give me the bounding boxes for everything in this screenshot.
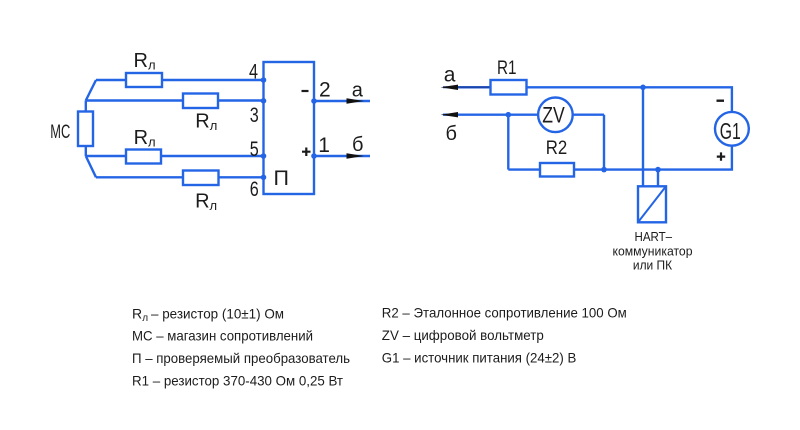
svg-text:коммуникатор: коммуникатор bbox=[613, 243, 693, 258]
wire: b lead to ZV bbox=[443, 113, 604, 115]
source circle G1 bbox=[715, 112, 749, 146]
junction dot bottom HART bbox=[655, 167, 661, 173]
junction dot pin4 bbox=[261, 77, 267, 83]
svg-text:л: л bbox=[142, 313, 148, 324]
resistor R1 bbox=[491, 80, 527, 95]
wire: top line from R1 to G1 corner bbox=[458, 87, 732, 112]
svg-text:R1: R1 bbox=[497, 58, 517, 79]
junction dot pin3 bbox=[261, 98, 267, 104]
wire: diagonal MC bottom to pin6 wire bbox=[86, 156, 96, 177]
transducer box P bbox=[264, 62, 315, 194]
wire: vertical from bottom wire to HART box bbox=[657, 170, 659, 187]
resistor RL3 (pin5 wire) bbox=[126, 150, 161, 164]
resistor RL4 (pin6 wire) bbox=[183, 171, 219, 186]
HART box diagonal bbox=[638, 186, 666, 222]
svg-text:R2 – Эталонное сопротивление 1: R2 – Эталонное сопротивление 100 Ом bbox=[382, 305, 627, 321]
voltmeter circle ZV bbox=[538, 98, 573, 133]
svg-text:a: a bbox=[352, 79, 364, 101]
svg-text:R: R bbox=[132, 305, 142, 321]
svg-text:П: П bbox=[274, 166, 289, 190]
minus sign above G1 bbox=[717, 99, 725, 101]
resistor R2 bbox=[540, 163, 574, 177]
arrow a (right) bbox=[347, 98, 365, 104]
wire: right vertical of ZV loop bbox=[603, 115, 605, 170]
svg-text:П – проверяемый преобразовател: П – проверяемый преобразователь bbox=[132, 350, 350, 366]
svg-text:б: б bbox=[352, 134, 363, 156]
wire: stub from MC bottom bbox=[85, 146, 87, 156]
resistor RL1 (pin4 wire) bbox=[126, 73, 162, 87]
plus sign below G1 bbox=[717, 152, 725, 160]
svg-text:5: 5 bbox=[250, 138, 259, 161]
resistance box MC bbox=[78, 112, 93, 147]
junction dot pin2 bbox=[311, 98, 317, 104]
arrow a (left) bbox=[441, 85, 459, 90]
svg-text:– резистор (10±1) Ом: – резистор (10±1) Ом bbox=[151, 305, 284, 321]
svg-text:6: 6 bbox=[250, 178, 259, 201]
svg-text:a: a bbox=[444, 63, 456, 86]
wire: pin 2 output line bbox=[314, 100, 370, 102]
svg-text:R1 – резистор 370-430 Ом 0,25: R1 – резистор 370-430 Ом 0,25 Вт bbox=[132, 373, 344, 389]
junction dot pin5 bbox=[261, 153, 267, 159]
svg-text:1: 1 bbox=[318, 134, 330, 157]
arrow b (left) bbox=[441, 112, 459, 117]
svg-text:G1 – источник питания (24±2) В: G1 – источник питания (24±2) В bbox=[382, 349, 577, 365]
wire: pin 5 line bbox=[86, 155, 264, 157]
svg-text:б: б bbox=[446, 123, 457, 145]
junction dot pin1 bbox=[311, 153, 317, 159]
junction dot pin6 bbox=[261, 175, 267, 181]
wire: diagonal MC top to pin4 wire bbox=[86, 80, 96, 101]
svg-text:ZV – цифровой вольтметр: ZV – цифровой вольтметр bbox=[382, 327, 544, 343]
svg-text:HART–: HART– bbox=[635, 229, 673, 244]
svg-text:3: 3 bbox=[250, 104, 259, 127]
HART communicator box bbox=[638, 186, 666, 222]
svg-text:2: 2 bbox=[319, 78, 331, 101]
svg-text:ZV: ZV bbox=[542, 103, 565, 128]
wire: pin 3 line bbox=[86, 99, 264, 101]
svg-text:G1: G1 bbox=[720, 118, 741, 144]
arrow b (right) bbox=[347, 153, 365, 159]
svg-text:R2: R2 bbox=[546, 138, 568, 159]
wire: dark lead segment to R1 bbox=[443, 86, 491, 88]
svg-text:или ПК: или ПК bbox=[633, 257, 673, 272]
wire: pin 4 line bbox=[96, 79, 264, 81]
wire: stub from MC top bbox=[85, 101, 87, 112]
wire: bottom line through R2 to G1 bbox=[508, 146, 732, 170]
wire: vertical from top junction to HART box bbox=[642, 87, 644, 186]
svg-text:4: 4 bbox=[249, 61, 258, 84]
junction dot R2 right bbox=[601, 167, 607, 173]
svg-text:МС: МС bbox=[50, 121, 70, 143]
wire: left vertical of R2 loop bbox=[507, 115, 509, 170]
minus sign at pin 2 bbox=[302, 90, 309, 92]
plus sign at pin 1 bbox=[302, 148, 311, 157]
junction dot b lead bbox=[506, 112, 512, 118]
resistor RL2 (pin3 wire) bbox=[183, 94, 218, 109]
wire: pin 1 output line bbox=[314, 155, 370, 157]
junction dot top HART bbox=[640, 85, 646, 91]
svg-text:МС – магазин сопротивлений: МС – магазин сопротивлений bbox=[132, 328, 313, 344]
wire: pin 6 line bbox=[96, 176, 264, 178]
